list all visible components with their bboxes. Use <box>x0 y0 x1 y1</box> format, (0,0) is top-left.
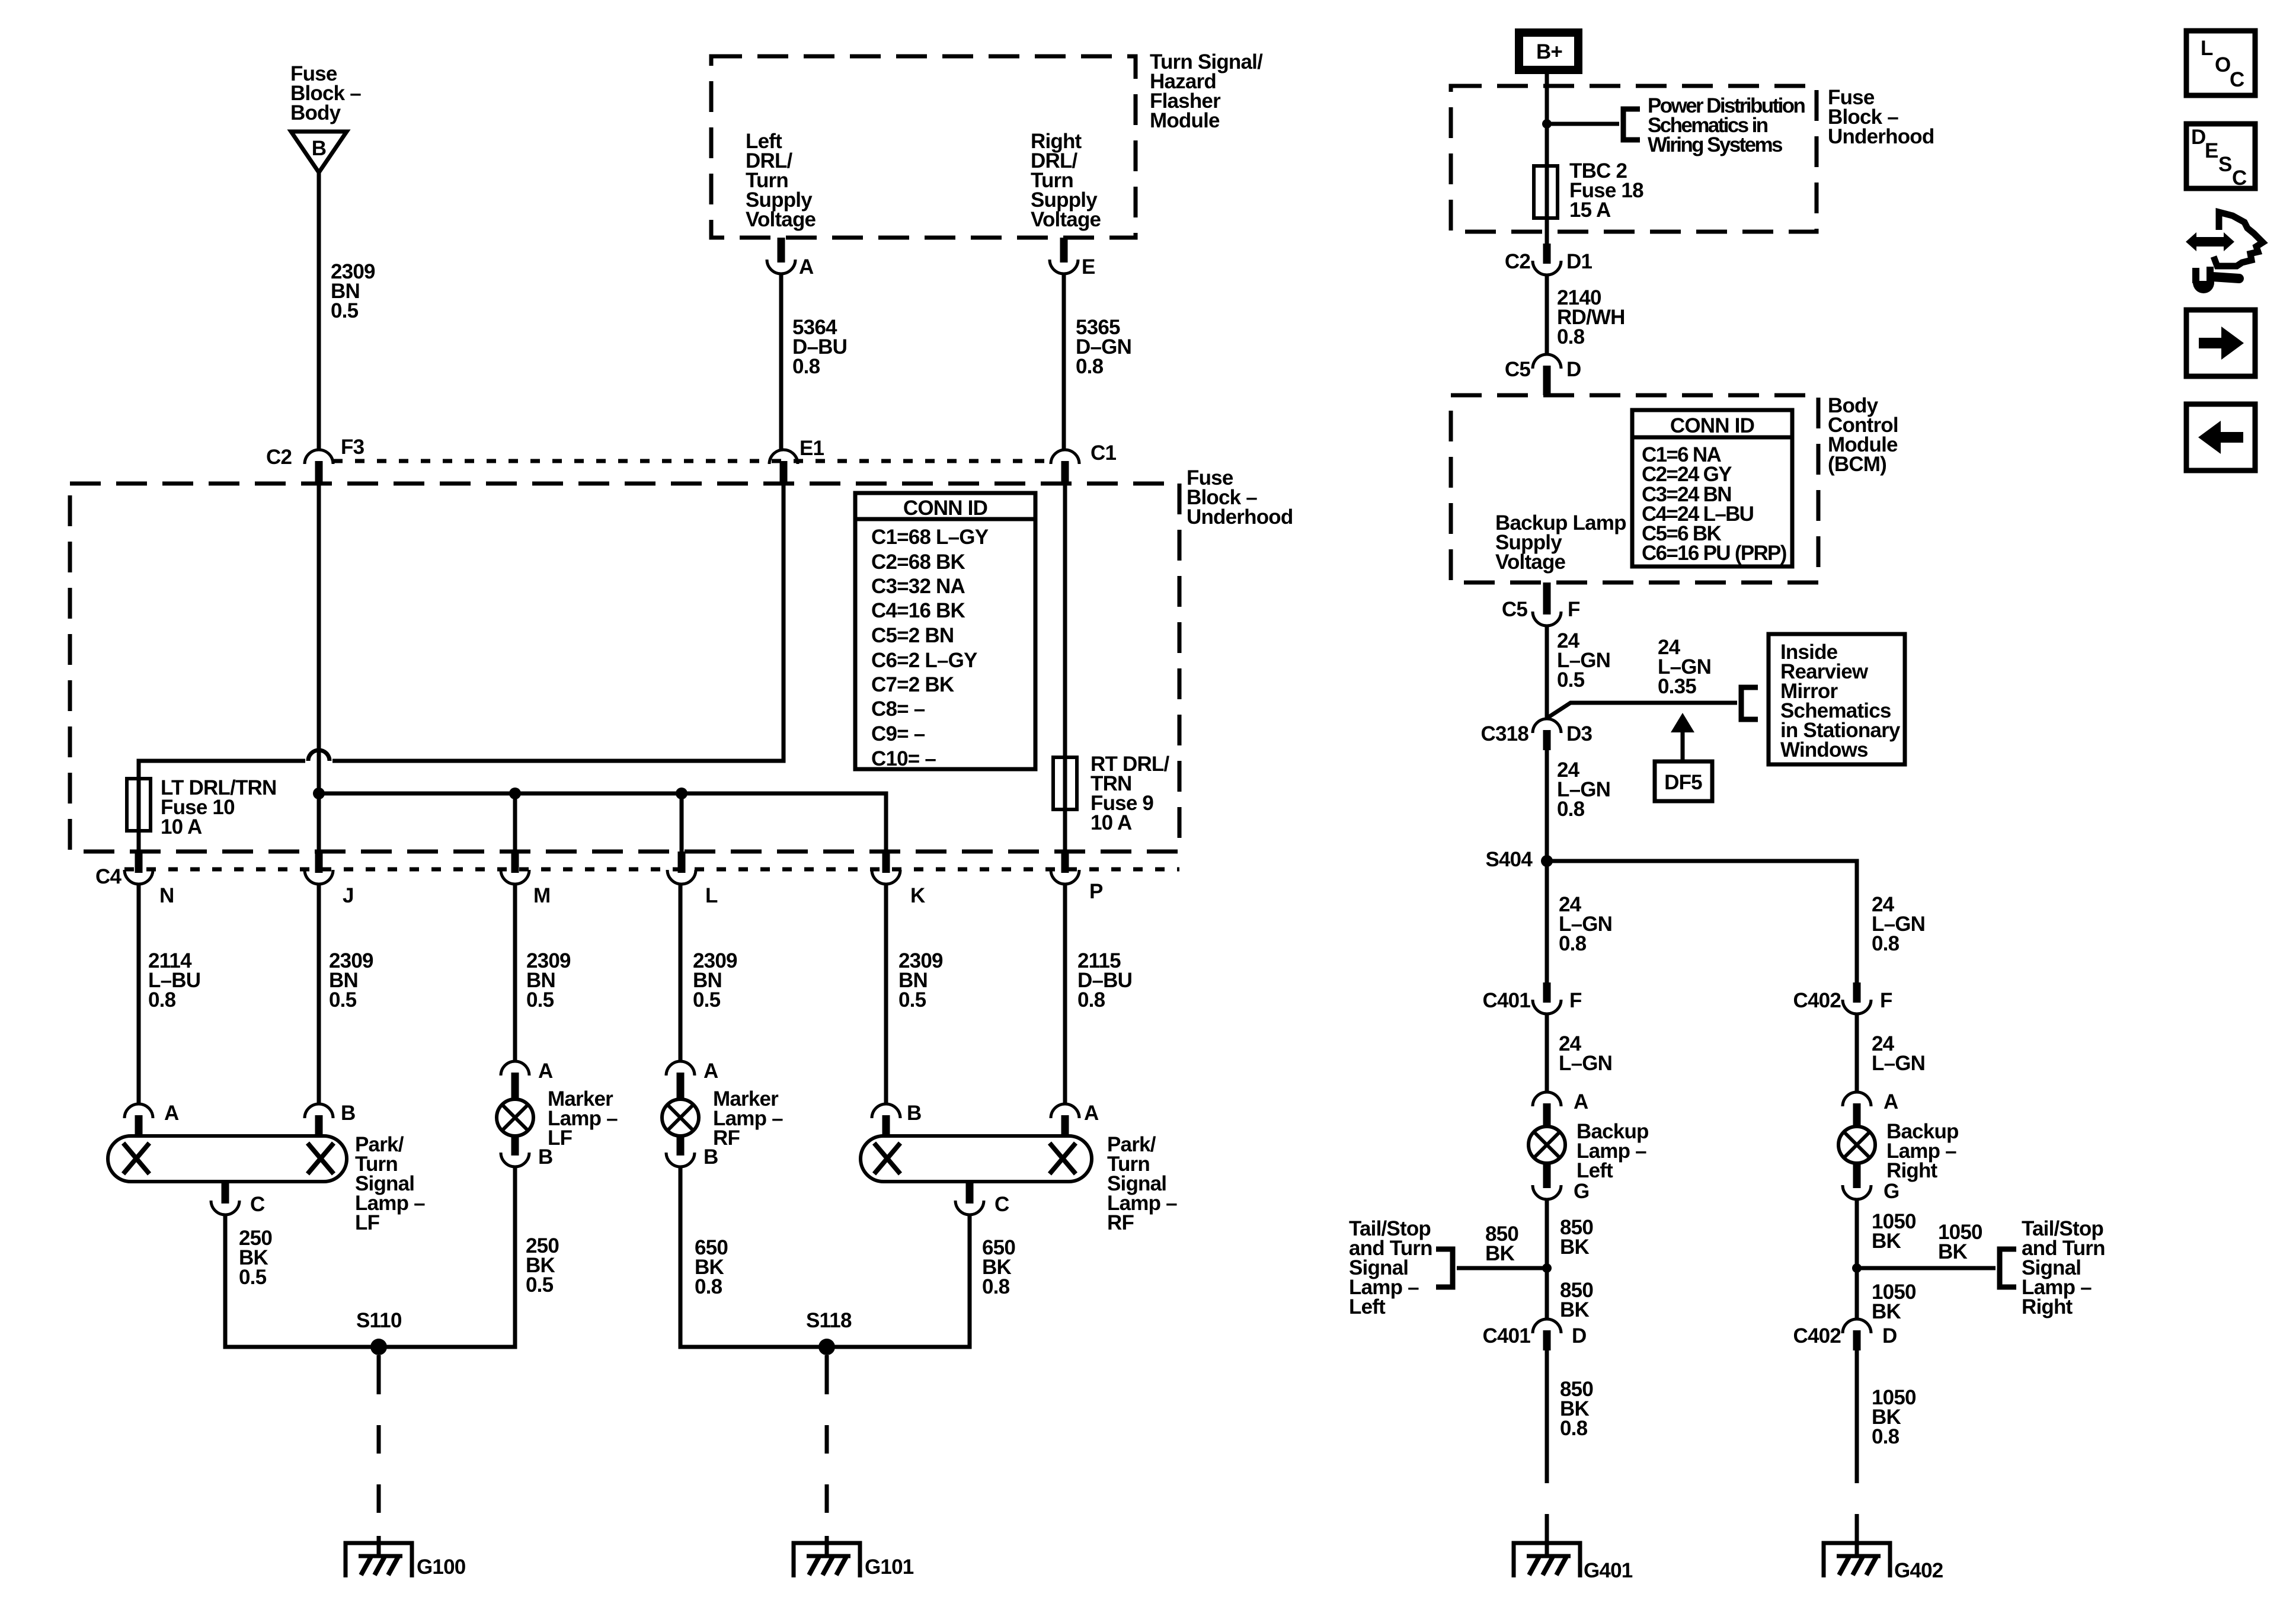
park/turn RF right filament X <box>1050 1143 1076 1174</box>
svg-text:Body: Body <box>290 101 341 124</box>
svg-text:C1=68 L–GY: C1=68 L–GY <box>871 526 989 549</box>
backup lamp left pin G connector <box>1543 1162 1551 1188</box>
marker lamp LF pin A connector <box>511 1073 519 1100</box>
connector row dotted line C2-C1 <box>333 459 1051 463</box>
svg-text:K: K <box>910 884 925 907</box>
svg-text:F3: F3 <box>341 436 364 459</box>
wire P to park/turn RF pin A <box>1063 883 1067 1105</box>
Fuse Block - Underhood box (left) <box>70 484 1179 852</box>
connector C402 pin D <box>1853 1330 1861 1350</box>
svg-text:CONN ID: CONN ID <box>1670 414 1754 437</box>
svg-text:BK: BK <box>1872 1230 1901 1253</box>
svg-text:A: A <box>1084 1102 1099 1125</box>
svg-text:LF: LF <box>355 1211 380 1234</box>
svg-text:RF: RF <box>1107 1211 1134 1234</box>
connector P <box>1061 852 1069 873</box>
wire park/turn LF C to S110 <box>225 1214 374 1347</box>
svg-text:A: A <box>703 1060 718 1083</box>
svg-text:G401: G401 <box>1584 1559 1633 1582</box>
marker lamp RF bulb <box>662 1099 699 1136</box>
junction on J wire <box>313 788 325 799</box>
park/turn signal lamp LF body <box>108 1136 347 1182</box>
svg-text:D: D <box>2191 126 2205 149</box>
ground wire S118 to G101 <box>825 1355 829 1366</box>
junction to power distribution reference <box>1542 119 1552 129</box>
svg-text:Underhood: Underhood <box>1828 125 1934 148</box>
svg-text:C3=32 NA: C3=32 NA <box>871 575 965 598</box>
backup lamp right bulb <box>1838 1126 1875 1163</box>
svg-text:10 A: 10 A <box>1091 811 1132 834</box>
svg-text:C2: C2 <box>1505 250 1530 273</box>
svg-text:D: D <box>1572 1324 1586 1347</box>
svg-text:F: F <box>1569 989 1582 1012</box>
wire backup right G to junction <box>1855 1198 1859 1268</box>
svg-text:S: S <box>2218 153 2232 176</box>
svg-text:(BCM): (BCM) <box>1828 453 1886 476</box>
svg-text:C318: C318 <box>1481 722 1529 745</box>
svg-text:0.8: 0.8 <box>1872 932 1900 955</box>
LOC icon box <box>2186 31 2255 95</box>
ground G100 <box>346 1543 412 1577</box>
svg-text:C5: C5 <box>1505 358 1530 381</box>
svg-text:0.5: 0.5 <box>239 1266 267 1289</box>
connector C2 pin F3 into fuse block <box>315 461 323 484</box>
svg-text:0.5: 0.5 <box>693 988 721 1012</box>
svg-text:CONN ID: CONN ID <box>903 497 987 520</box>
svg-text:0.8: 0.8 <box>148 988 176 1012</box>
svg-text:A: A <box>164 1102 179 1125</box>
tail/stop lamp left bracket <box>1436 1249 1453 1287</box>
wire C401 to backup lamp left <box>1545 1013 1549 1093</box>
DF5 arrow <box>1681 731 1685 761</box>
marker lamp RF pin A connector <box>677 1073 685 1100</box>
park/turn signal lamp RF body <box>861 1136 1092 1182</box>
connector C5 pin D into BCM <box>1543 366 1551 395</box>
connector N <box>135 852 143 873</box>
svg-text:Wiring Systems: Wiring Systems <box>1648 133 1783 156</box>
svg-text:S110: S110 <box>356 1309 402 1332</box>
svg-text:B: B <box>341 1102 355 1125</box>
svg-text:B: B <box>703 1145 718 1169</box>
park/turn RF pin B connector <box>882 1115 890 1138</box>
connector C401 pin D <box>1543 1330 1551 1350</box>
connector K <box>882 852 890 873</box>
svg-text:C402: C402 <box>1793 989 1841 1012</box>
svg-text:B: B <box>538 1145 552 1169</box>
wire 2309 BN from triangle B down to C2/F3 <box>317 172 321 451</box>
svg-text:C401: C401 <box>1483 1324 1531 1347</box>
svg-text:DF5: DF5 <box>1664 771 1702 794</box>
battery feed B+ <box>1519 33 1578 70</box>
svg-text:0.8: 0.8 <box>1557 325 1585 348</box>
wire hop over J wire <box>308 750 330 761</box>
svg-text:C: C <box>2230 68 2244 91</box>
connector C401 pin F <box>1543 982 1551 1003</box>
diagnostic wrench icon <box>2186 232 2234 251</box>
svg-text:BK: BK <box>1938 1240 1967 1263</box>
svg-text:C402: C402 <box>1793 1324 1841 1347</box>
svg-text:0.8: 0.8 <box>1557 798 1585 821</box>
junction drop to L <box>676 788 687 799</box>
svg-text:A: A <box>1574 1090 1588 1113</box>
off-page triangle B (Fuse Block - Body feed) <box>291 132 347 172</box>
svg-text:0.8: 0.8 <box>1872 1425 1900 1448</box>
svg-text:Module: Module <box>1150 109 1220 132</box>
svg-text:F: F <box>1880 989 1892 1012</box>
backup lamp right pin A connector <box>1853 1103 1861 1128</box>
svg-text:C5=2 BN: C5=2 BN <box>871 624 954 647</box>
wire N to park/turn LF pin A <box>137 883 141 1105</box>
tail/stop lamp right bracket <box>2000 1249 2016 1287</box>
svg-text:P: P <box>1089 880 1103 903</box>
DESC icon box <box>2186 124 2255 188</box>
DF5 reference box <box>1655 761 1712 801</box>
svg-text:C2: C2 <box>266 446 292 469</box>
wire marker RF B to S118 <box>680 1166 822 1347</box>
wire from E1 down and across to LT fuse (with hop over J wire) <box>332 481 784 761</box>
rearview mirror reference bracket <box>1741 687 1758 719</box>
svg-text:C4: C4 <box>95 865 121 888</box>
wire C402 to backup lamp right <box>1855 1013 1859 1093</box>
svg-text:G402: G402 <box>1894 1559 1943 1582</box>
park/turn LF left filament X <box>123 1143 149 1174</box>
marker lamp LF bulb <box>497 1099 533 1136</box>
connector row dotted line C4 N-P <box>124 868 1179 872</box>
svg-text:C5: C5 <box>1502 598 1527 621</box>
svg-text:0.5: 0.5 <box>1557 668 1585 692</box>
svg-text:B: B <box>907 1102 921 1125</box>
svg-text:0.8: 0.8 <box>1076 355 1104 378</box>
svg-text:Right: Right <box>2022 1295 2073 1318</box>
wire L to marker lamp RF <box>679 883 683 1062</box>
svg-text:L: L <box>705 884 718 907</box>
svg-text:C6=16 PU (PRP): C6=16 PU (PRP) <box>1642 542 1786 565</box>
connector E1 into fuse block <box>780 461 788 484</box>
splice S404 <box>1541 855 1553 867</box>
wire B+ into fuse block <box>1545 74 1549 248</box>
svg-text:D1: D1 <box>1566 250 1592 273</box>
ground G101 <box>794 1543 860 1577</box>
wire 24 L-GN 0.5 <box>1545 625 1549 718</box>
svg-text:0.8: 0.8 <box>792 355 820 378</box>
wire 5364 D-BU from A to E1 <box>779 273 784 451</box>
wire K to park/turn RF pin B <box>884 883 888 1105</box>
RT DRL/TRN Fuse 9 <box>1053 757 1077 809</box>
Inside Rearview Mirror box <box>1769 634 1905 764</box>
connector pin A of flasher module <box>778 238 785 263</box>
wire 5365 D-GN from E to C1 <box>1062 273 1066 451</box>
wire 1050 BK 0.8 to G402 <box>1855 1350 1859 1455</box>
bus wire S404 to right branch <box>1547 861 1857 987</box>
svg-text:J: J <box>343 884 354 907</box>
svg-text:Voltage: Voltage <box>746 208 816 231</box>
park/turn RF left filament X <box>874 1143 900 1174</box>
svg-text:C: C <box>250 1193 265 1216</box>
svg-text:B: B <box>312 137 326 160</box>
svg-text:C: C <box>994 1193 1009 1216</box>
Body Control Module box <box>1451 395 1818 582</box>
svg-text:G: G <box>1884 1180 1899 1203</box>
connector C1 into fuse block <box>1061 461 1069 484</box>
svg-text:Windows: Windows <box>1780 738 1868 761</box>
CONN ID table (BCM) <box>1632 410 1792 566</box>
connector C318 pin D3 <box>1543 730 1551 750</box>
park/turn LF right filament X <box>308 1143 334 1174</box>
svg-text:M: M <box>533 884 550 907</box>
svg-text:Voltage: Voltage <box>1031 208 1101 231</box>
park/turn LF pin C connector <box>222 1182 229 1204</box>
back arrow icon box <box>2186 404 2255 470</box>
svg-text:Underhood: Underhood <box>1187 505 1293 529</box>
junction to tail/stop lamp right <box>1852 1263 1862 1273</box>
LT DRL/TRN Fuse 10 <box>127 779 151 831</box>
connector pin E of flasher module <box>1060 238 1068 263</box>
marker lamp RF pin B connector <box>677 1135 685 1156</box>
svg-text:0.8: 0.8 <box>1559 932 1587 955</box>
svg-text:0.5: 0.5 <box>526 1273 554 1297</box>
svg-text:D: D <box>1882 1324 1897 1347</box>
backup lamp left pin A connector <box>1543 1103 1551 1128</box>
power distribution reference bracket <box>1623 109 1640 140</box>
ground G402 <box>1824 1543 1890 1577</box>
wire marker LF B to S110 <box>383 1166 515 1347</box>
splice S118 <box>818 1339 835 1355</box>
svg-text:C7=2 BK: C7=2 BK <box>871 673 954 696</box>
wire 2140 RD/WH <box>1545 274 1549 354</box>
svg-text:0.5: 0.5 <box>331 299 359 322</box>
svg-text:C4=16 BK: C4=16 BK <box>871 599 965 622</box>
splice branch to rearview mirror reference <box>1547 703 1737 718</box>
svg-text:0.8: 0.8 <box>982 1275 1010 1298</box>
svg-text:C10= –: C10= – <box>871 747 936 770</box>
backup lamp left bulb <box>1528 1126 1565 1163</box>
Turn Signal/Hazard Flasher Module box <box>711 56 1136 238</box>
wire from C1 down to RT fuse <box>1063 481 1067 854</box>
wire 850 BK 0.8 to G401 <box>1545 1350 1549 1455</box>
svg-text:E: E <box>2205 139 2218 162</box>
svg-text:C: C <box>2232 167 2247 190</box>
svg-text:BK: BK <box>1560 1235 1589 1259</box>
connector C402 pin F <box>1853 982 1861 1003</box>
wire from C2/F3 down through fuse block to J <box>317 481 321 854</box>
wire C318 to S404 <box>1545 750 1549 861</box>
svg-text:0.5: 0.5 <box>329 988 357 1012</box>
splice S110 <box>370 1339 387 1355</box>
svg-text:S118: S118 <box>806 1309 852 1332</box>
svg-text:0.5: 0.5 <box>898 988 926 1012</box>
wire LT fuse to connector N <box>137 761 141 854</box>
Fuse Block - Underhood box (right) <box>1451 86 1817 232</box>
svg-text:F: F <box>1568 598 1580 621</box>
svg-text:0.8: 0.8 <box>1560 1417 1588 1440</box>
svg-text:C1: C1 <box>1091 441 1116 465</box>
TBC 2 Fuse 18 15 A <box>1534 166 1558 218</box>
svg-text:L–GN: L–GN <box>1559 1052 1612 1075</box>
svg-text:0.8: 0.8 <box>695 1275 722 1298</box>
connector C2 pin D1 <box>1543 244 1551 264</box>
svg-text:N: N <box>159 884 174 907</box>
svg-text:E1: E1 <box>800 437 824 460</box>
connector L <box>678 852 686 873</box>
wire M to marker lamp LF <box>513 883 517 1062</box>
svg-text:15 A: 15 A <box>1569 199 1611 222</box>
wire junction to C401 D <box>1545 1268 1549 1319</box>
svg-text:BK: BK <box>1485 1242 1514 1265</box>
svg-text:C401: C401 <box>1483 989 1531 1012</box>
CONN ID table (fuse block underhood) <box>855 493 1035 769</box>
svg-text:L: L <box>2201 37 2213 60</box>
ground wire S110 to G100 <box>377 1355 381 1366</box>
svg-text:BK: BK <box>1872 1300 1901 1323</box>
connector C5 pin F out of BCM <box>1543 582 1551 614</box>
junction drop to M <box>509 788 521 799</box>
svg-text:S404: S404 <box>1485 848 1533 871</box>
svg-text:0.35: 0.35 <box>1658 675 1696 698</box>
svg-text:D3: D3 <box>1566 722 1592 745</box>
connector J <box>315 852 323 873</box>
wire junction to C402 D <box>1855 1268 1859 1319</box>
svg-text:A: A <box>538 1060 553 1083</box>
backup lamp right pin G connector <box>1853 1162 1861 1188</box>
svg-text:0.8: 0.8 <box>1077 988 1105 1012</box>
park/turn LF pin B connector <box>315 1115 323 1138</box>
wire J to park/turn LF pin B <box>317 883 321 1105</box>
svg-text:D: D <box>1566 358 1581 381</box>
svg-text:Right: Right <box>1886 1159 1938 1182</box>
park/turn RF pin C connector <box>966 1182 974 1204</box>
svg-text:Left: Left <box>1576 1159 1613 1182</box>
svg-text:C9= –: C9= – <box>871 722 925 745</box>
svg-text:E: E <box>1082 255 1095 279</box>
svg-text:A: A <box>799 255 814 279</box>
svg-text:G100: G100 <box>417 1555 466 1579</box>
junction to tail/stop lamp left <box>1542 1263 1552 1273</box>
forward arrow icon box <box>2186 310 2255 376</box>
connector M <box>511 852 519 873</box>
svg-text:A: A <box>1884 1090 1898 1113</box>
svg-text:C2=68 BK: C2=68 BK <box>871 550 965 574</box>
svg-text:BK: BK <box>1560 1298 1589 1321</box>
svg-text:Left: Left <box>1349 1295 1386 1318</box>
svg-text:0.5: 0.5 <box>526 988 554 1012</box>
park/turn RF pin A connector <box>1061 1115 1069 1138</box>
marker lamp LF pin B connector <box>511 1135 519 1156</box>
svg-text:B+: B+ <box>1536 40 1562 63</box>
wire S404 to C401 <box>1545 861 1549 987</box>
svg-text:O: O <box>2215 53 2230 76</box>
svg-text:C6=2 L–GY: C6=2 L–GY <box>871 649 977 672</box>
svg-text:10 A: 10 A <box>161 815 202 838</box>
park/turn LF pin A connector <box>135 1115 143 1138</box>
svg-text:L–GN: L–GN <box>1872 1052 1925 1075</box>
wire backup left G to junction <box>1545 1198 1549 1268</box>
svg-text:G: G <box>1574 1180 1589 1203</box>
ground G401 <box>1514 1543 1580 1577</box>
svg-text:C8= –: C8= – <box>871 697 925 721</box>
svg-text:G101: G101 <box>865 1555 914 1579</box>
wire park/turn RF C to S118 <box>832 1214 970 1347</box>
bus wire from J junction to K drop <box>319 793 886 854</box>
svg-text:Voltage: Voltage <box>1495 550 1566 574</box>
